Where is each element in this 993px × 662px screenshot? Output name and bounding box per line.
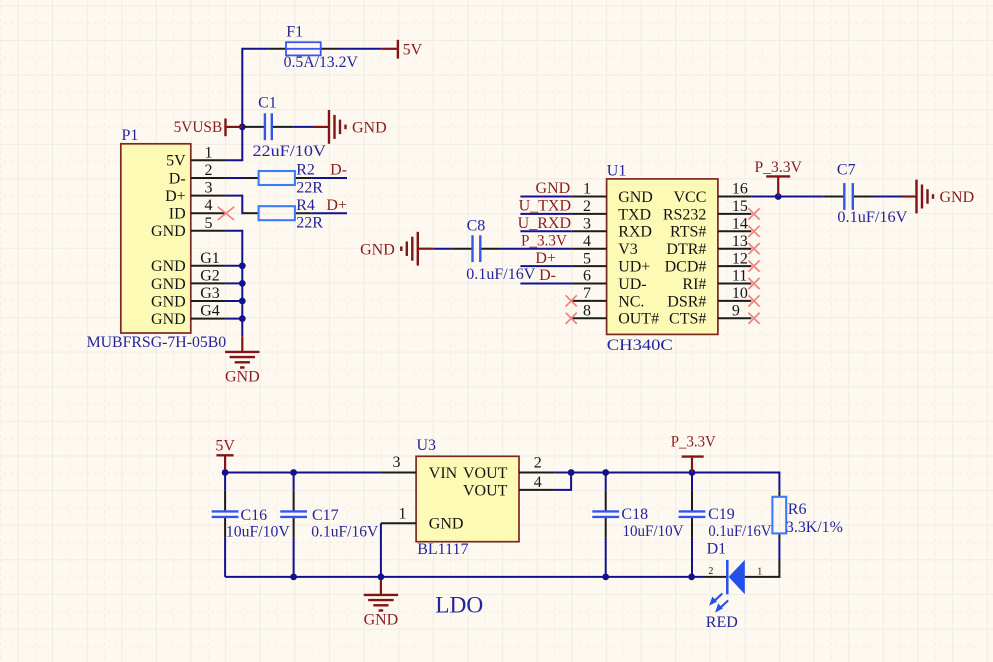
svg-text:R2: R2 (296, 162, 315, 179)
svg-text:P_3.3V: P_3.3V (521, 232, 567, 249)
svg-text:GND: GND (151, 223, 186, 240)
junction (689, 469, 696, 476)
ground (360, 232, 433, 266)
svg-text:U3: U3 (417, 437, 437, 454)
wire (520, 265, 571, 267)
wire (225, 472, 381, 474)
svg-text:1: 1 (399, 505, 407, 522)
svg-text:1: 1 (205, 144, 213, 161)
wire (520, 283, 571, 285)
svg-text:P1: P1 (122, 127, 139, 144)
wire (605, 473, 607, 577)
svg-text:UD+: UD+ (618, 259, 650, 276)
wire (691, 473, 693, 577)
svg-text:C19: C19 (708, 506, 735, 523)
svg-text:5V: 5V (403, 42, 423, 59)
resistor R6 (772, 490, 843, 540)
wire (225, 127, 242, 160)
net label U_TXD (519, 198, 571, 215)
svg-text:DTR#: DTR# (666, 241, 706, 258)
junction (568, 469, 575, 476)
net label GND (536, 180, 571, 197)
svg-text:1: 1 (757, 567, 762, 578)
svg-text:C7: C7 (837, 162, 856, 179)
ground (901, 180, 974, 214)
svg-text:3: 3 (205, 180, 213, 197)
power port 5V (381, 40, 422, 59)
svg-text:6: 6 (583, 268, 591, 285)
svg-text:DSR#: DSR# (667, 293, 706, 310)
no-connect pin 10 (748, 295, 759, 306)
svg-text:TXD: TXD (618, 206, 651, 223)
svg-text:D-: D- (539, 267, 556, 284)
net label D- (330, 162, 347, 179)
svg-text:C16: C16 (241, 507, 268, 524)
IC U1 (571, 162, 751, 354)
junction (378, 574, 385, 581)
capacitor C1 (244, 94, 326, 160)
svg-text:10uF/10V: 10uF/10V (623, 523, 684, 540)
svg-text:9: 9 (732, 303, 740, 320)
svg-text:NC.: NC. (618, 293, 644, 310)
wire (242, 49, 269, 127)
power port 5V (215, 438, 235, 473)
no-connect pin 8 (566, 313, 577, 324)
svg-text:0.1uF/16V: 0.1uF/16V (466, 266, 535, 283)
svg-text:LDO: LDO (435, 593, 483, 618)
svg-text:GND: GND (352, 120, 387, 137)
svg-text:0.5A/13.2V: 0.5A/13.2V (284, 54, 359, 71)
capacitor C16 (212, 491, 291, 541)
svg-text:4: 4 (583, 233, 591, 250)
svg-text:R6: R6 (788, 501, 807, 518)
svg-text:U1: U1 (607, 162, 627, 179)
svg-text:P_3.3V: P_3.3V (755, 159, 803, 176)
svg-text:G3: G3 (200, 285, 220, 302)
svg-text:5V: 5V (215, 438, 235, 455)
wire (225, 576, 703, 578)
svg-text:C17: C17 (312, 507, 339, 524)
svg-text:D-: D- (169, 170, 186, 187)
svg-text:D-: D- (330, 162, 347, 179)
resistor R4 (244, 197, 324, 232)
svg-text:3: 3 (393, 454, 401, 471)
svg-text:GND: GND (536, 180, 571, 197)
power port P_3.3V (671, 434, 716, 473)
svg-text:D+: D+ (535, 250, 556, 267)
svg-text:DCD#: DCD# (665, 259, 707, 276)
svg-text:VIN: VIN (429, 465, 458, 482)
wire (751, 196, 778, 198)
fuse F1 (269, 23, 358, 70)
svg-text:0.1uF/16V: 0.1uF/16V (311, 524, 378, 541)
wire (554, 473, 571, 490)
capacitor C18 (592, 491, 684, 541)
svg-text:U_TXD: U_TXD (519, 198, 571, 215)
svg-text:UD-: UD- (618, 276, 646, 293)
net label D+ (326, 197, 347, 214)
wire (293, 126, 313, 128)
wire (778, 196, 823, 198)
svg-text:GND: GND (151, 293, 186, 310)
ground (225, 336, 260, 385)
ground (314, 110, 387, 144)
wire (520, 230, 571, 232)
svg-text:GND: GND (618, 189, 653, 206)
svg-text:2: 2 (534, 455, 542, 472)
svg-text:0.1uF/16V: 0.1uF/16V (837, 209, 907, 226)
svg-text:RS232: RS232 (663, 206, 707, 223)
no-connect pin 15 (748, 208, 759, 219)
svg-text:C18: C18 (621, 506, 648, 523)
svg-text:P_3.3V: P_3.3V (671, 434, 716, 451)
svg-text:5: 5 (583, 250, 591, 267)
resistor R2 (244, 162, 324, 197)
net label D+ (535, 250, 556, 267)
svg-text:VOUT: VOUT (463, 482, 508, 499)
svg-text:GND: GND (360, 241, 395, 258)
svg-text:14: 14 (732, 216, 748, 233)
svg-text:ID: ID (169, 206, 186, 223)
svg-text:CH340C: CH340C (607, 337, 673, 354)
svg-text:22R: 22R (296, 215, 323, 232)
junction (290, 574, 297, 581)
svg-text:22R: 22R (296, 179, 323, 196)
capacitor C8 (452, 218, 536, 283)
svg-text:D+: D+ (165, 188, 186, 205)
svg-text:D1: D1 (707, 540, 727, 557)
wire (520, 213, 571, 215)
svg-text:3: 3 (583, 216, 591, 233)
svg-text:GND: GND (429, 516, 464, 533)
power port 5VUSB (174, 119, 243, 137)
svg-text:C8: C8 (467, 218, 486, 235)
connector P1 (87, 127, 227, 351)
wire (224, 473, 226, 577)
no-connect pin 14 (748, 226, 759, 237)
no-connect pin 7 (566, 295, 577, 306)
wire (874, 196, 902, 198)
svg-text:GND: GND (151, 276, 186, 293)
svg-text:G2: G2 (200, 267, 220, 284)
wire (225, 262, 245, 322)
svg-text:8: 8 (583, 303, 591, 320)
svg-text:G1: G1 (200, 250, 220, 267)
svg-text:RED: RED (706, 614, 738, 631)
power port P_3.3V (755, 159, 803, 197)
svg-text:VOUT: VOUT (463, 465, 508, 482)
wire (501, 248, 571, 250)
svg-text:10uF/10V: 10uF/10V (226, 524, 290, 541)
svg-text:R4: R4 (296, 197, 315, 214)
svg-text:RI#: RI# (682, 276, 706, 293)
junction (602, 574, 609, 581)
svg-text:4: 4 (205, 197, 213, 214)
svg-text:1: 1 (583, 181, 591, 198)
wire (778, 541, 780, 560)
svg-text:G4: G4 (200, 303, 220, 320)
svg-text:OUT#: OUT# (618, 311, 659, 328)
wire (520, 196, 571, 198)
capacitor C17 (280, 491, 379, 541)
net label D- (539, 267, 556, 284)
svg-text:2: 2 (583, 198, 591, 215)
LED D1 (703, 540, 762, 631)
svg-text:MUBFRSG-7H-05B0: MUBFRSG-7H-05B0 (87, 334, 227, 351)
svg-text:13: 13 (732, 233, 748, 250)
regulator U3 (381, 437, 555, 558)
no-connect pin 13 (748, 243, 759, 254)
no-connect pin 4 (218, 207, 234, 220)
svg-text:GND: GND (151, 258, 186, 275)
svg-text:4: 4 (534, 474, 542, 491)
svg-text:RTS#: RTS# (670, 224, 706, 241)
svg-text:5VUSB: 5VUSB (174, 119, 223, 136)
no-connect pin 9 (748, 313, 759, 324)
svg-text:C1: C1 (258, 94, 277, 111)
junction (222, 469, 229, 476)
svg-text:2: 2 (205, 162, 213, 179)
wire (225, 177, 243, 179)
svg-text:VCC: VCC (673, 189, 706, 206)
svg-text:D+: D+ (326, 197, 347, 214)
svg-text:U_RXD: U_RXD (518, 215, 571, 232)
junction (602, 469, 609, 476)
svg-text:3.3K/1%: 3.3K/1% (786, 519, 843, 536)
net label P_3.3V (521, 232, 567, 249)
svg-text:BL1117: BL1117 (417, 541, 468, 558)
svg-text:22uF/10V: 22uF/10V (253, 143, 327, 160)
net label U_RXD (518, 215, 571, 232)
svg-text:GND: GND (940, 189, 975, 206)
svg-text:11: 11 (732, 268, 747, 285)
svg-text:GND: GND (364, 612, 399, 629)
wire (293, 473, 295, 577)
svg-text:5V: 5V (166, 153, 186, 170)
svg-text:V3: V3 (618, 241, 638, 258)
capacitor C7 (824, 162, 908, 226)
wire (225, 196, 243, 214)
text LDO (435, 593, 483, 618)
svg-text:10: 10 (732, 285, 748, 302)
junction (239, 124, 246, 131)
svg-text:16: 16 (732, 181, 748, 198)
junction (290, 469, 297, 476)
wire (380, 523, 382, 580)
svg-text:CTS#: CTS# (669, 311, 706, 328)
svg-text:GND: GND (225, 369, 260, 386)
junction (688, 574, 695, 581)
wire (554, 473, 779, 491)
wire (746, 560, 779, 577)
svg-text:7: 7 (583, 285, 591, 302)
wire (338, 48, 381, 50)
junction (775, 193, 782, 200)
ground (364, 581, 399, 629)
svg-text:0.1uF/16V: 0.1uF/16V (708, 523, 771, 540)
wire (433, 248, 452, 250)
wire (311, 177, 347, 179)
svg-text:GND: GND (151, 311, 186, 328)
no-connect pin 11 (748, 278, 759, 289)
capacitor C19 (679, 491, 772, 541)
svg-text:2: 2 (708, 566, 713, 577)
svg-text:RXD: RXD (618, 224, 652, 241)
svg-text:12: 12 (732, 250, 748, 267)
wire (311, 212, 347, 214)
svg-text:F1: F1 (286, 23, 303, 40)
svg-text:5: 5 (205, 215, 213, 232)
wire (225, 231, 242, 336)
no-connect pin 12 (748, 261, 759, 272)
svg-text:15: 15 (732, 198, 748, 215)
